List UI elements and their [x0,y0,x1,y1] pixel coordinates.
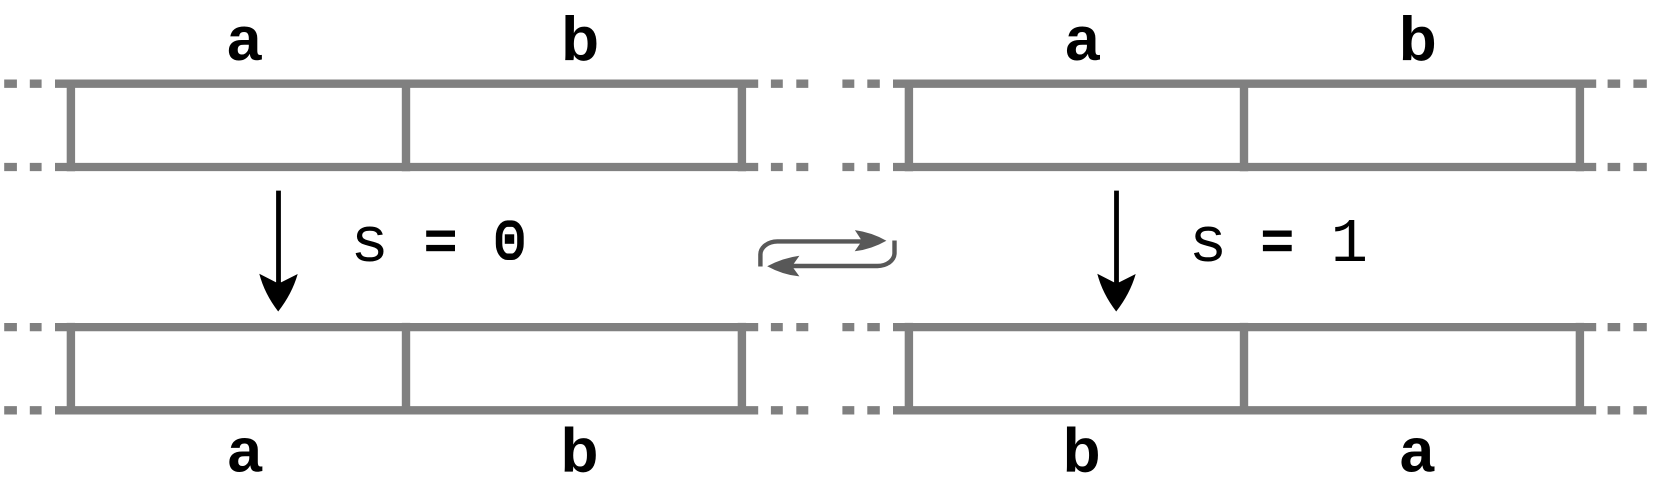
svg-text:a: a [1400,417,1435,486]
down arrow left: head [259,274,297,312]
svg-text:a: a [227,417,262,486]
cell dividers: lower-left array [71,323,742,415]
svg-text:s: s [350,209,388,281]
equals sign (of s = 1): two bars [1263,231,1292,237]
cell dividers: upper-right array [909,80,1580,172]
svg-text:b: b [560,417,598,486]
svg-text:s: s [1189,209,1227,281]
svg-text:a: a [1065,5,1100,74]
zero center dot [505,234,514,244]
wire: dashed+solid horizontal rail row 1 (top edge of upper arrays) [4,80,1647,88]
exchange symbol: bottom arrow (points left) [767,241,894,277]
down arrow right: head [1097,274,1135,312]
cell dividers: lower-right array [909,323,1580,415]
exchange symbol: top arrow (points right) [760,230,886,266]
wire: dashed+solid horizontal rail row 2 (bottom edge of upper arrays) [4,163,1647,171]
digit 0 ring [499,224,520,257]
svg-text:a: a [227,5,262,74]
equals sign (of s = 0): two bars [426,231,455,237]
svg-text:b: b [1399,5,1437,74]
down arrow left: shaft [276,191,281,284]
svg-text:b: b [561,5,599,74]
wire: dashed+solid horizontal rail row 4 (bottom edge of lower arrays) [4,406,1647,414]
cell dividers: upper-left array [71,80,742,172]
down arrow right: shaft [1114,191,1119,284]
wire: dashed+solid horizontal rail row 3 (top edge of lower arrays) [4,323,1647,331]
svg-text:b: b [1063,417,1101,486]
svg-text:1: 1 [1331,209,1368,280]
